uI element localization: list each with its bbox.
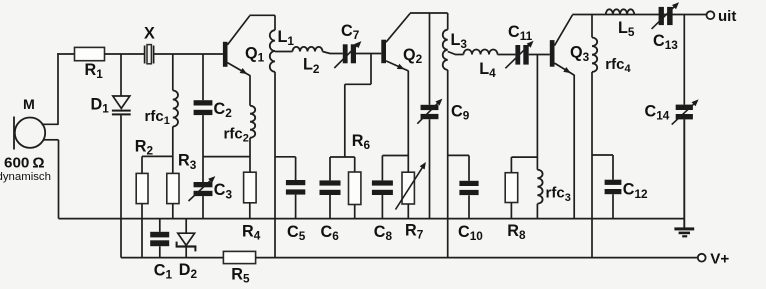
label rfc2 [224,125,249,144]
capacitor C1 [150,232,169,246]
wire R8-rfc3 jog [511,156,537,158]
label C14 [645,103,670,123]
label uit [718,8,736,25]
wire Q2 collector top [410,12,448,14]
wire Q1 emitter down [249,75,251,106]
label C13 [653,32,678,52]
inductor rfc2 [250,106,255,138]
svg-text:dynamisch: dynamisch [0,171,51,183]
resistor R8 [505,173,518,203]
wire L3 bottom to V+ rail [447,70,449,258]
wire X to Q1 base [154,53,223,55]
capacitor C13 trimmer [652,2,679,29]
wire C8 to ground rail [381,195,383,219]
wire R1 to crystal X [105,53,145,55]
crystal X [145,45,154,64]
wire D1 to V+ rail [120,115,122,257]
wire R6 top lead [354,157,356,172]
wire R8 top lead [510,157,512,173]
transistor Q2 collector [386,14,410,43]
wire C5 jog [275,156,296,158]
capacitor C9 trimmer [417,99,442,124]
wire C10 top lead [468,155,470,180]
capacitor C3 trimmer [189,176,216,201]
inductor L2 tap wire [275,51,293,53]
zener diode D2 [176,233,197,251]
diode D1 varactor [112,96,131,115]
wire C12 jog [592,154,613,156]
label R5 [231,266,250,286]
label dynamisch [0,171,51,183]
wire L2 to C7 [323,52,343,54]
inductor L2 [293,47,323,52]
transistor Q1 emitter [227,63,250,76]
wire R3 to ground rail [172,204,174,219]
wire Q3 collector top [572,14,706,16]
label M [23,97,35,113]
wire C14 top lead [683,15,685,105]
inductor L3 [443,30,448,70]
label C3 [214,181,233,201]
resistor R1 [75,47,105,60]
svg-text:X: X [144,24,155,42]
zener diode D2 bottom lead [185,247,187,257]
wire C6 to ground rail [329,195,331,219]
transistor Q2 emitter [386,61,408,71]
inductor rfc1 top wire [172,54,174,91]
wire R6 to ground rail [354,205,356,219]
inductor rfc4 top [591,15,593,38]
label C12 [623,181,648,201]
capacitor C1 top lead [159,219,161,232]
resistor R4 [244,172,257,203]
label C8 [374,223,393,243]
wire C14 to ground [683,119,685,228]
label L4 [479,60,496,80]
wire rfc2 to R4 [249,138,251,173]
label C11 [508,23,533,43]
inductor L4 [464,50,498,55]
label R6 [352,132,371,152]
capacitor C1 bottom lead [159,246,161,257]
wire mic bottom lead [44,140,59,219]
transistor Q3 collector [555,15,573,46]
label rfc3 [546,185,571,204]
zener diode D2 top lead [185,219,187,234]
capacitor C12 [605,180,622,195]
wire node A to R1 [57,53,74,55]
capacitor C6 [320,180,341,195]
wire Q1 collector top [249,14,275,16]
inductor rfc1 [173,91,178,127]
ground symbol [674,227,694,237]
wire C8-R7 jog [382,155,408,157]
label D1 [91,96,110,116]
svg-text:uit: uit [718,8,736,25]
capacitor C10 [459,181,478,195]
capacitor C5 [286,180,305,195]
wire Q3 base tap down [536,55,538,170]
wire C6 top lead [329,157,331,180]
label Q1 [245,44,265,64]
label C1 [154,262,173,282]
capacitor C14 trimmer [672,99,699,124]
wire C8 top lead [381,156,383,181]
label C9 [451,103,470,123]
capacitor C7 trimmer [334,41,361,68]
transistor Q2 base bar [381,40,386,64]
wire C3 to ground rail [202,196,204,219]
wire L1 bottom to V+ rail [274,72,276,258]
wire V+ rail left segment [121,257,223,259]
svg-text:M: M [23,97,35,113]
wire mic top lead [42,53,59,125]
label X [144,24,155,42]
terminal uit [707,11,715,19]
transistor Q1 collector [227,16,249,45]
wire rfc1 to R3 [172,127,174,174]
wire C9 top lead [429,13,431,105]
resistor R7 variable [396,162,426,210]
wire C9 to ground rail [429,119,431,218]
resistor R5 [223,251,255,263]
wire R2 jog [142,156,173,173]
label D2 [179,261,198,281]
transistor Q1 base bar [223,42,228,67]
wire rfc4 to V+ rail [591,72,593,258]
wire Q3 emitter to ground rail [573,75,575,219]
wire rfc3 to ground rail [536,204,538,219]
label rfc4 [605,56,631,75]
transistor Q3 base bar [550,40,555,67]
svg-text:V+: V+ [710,251,729,268]
label L5 [618,19,635,39]
wire C5 to ground rail [295,195,297,219]
resistor R6 [349,172,361,205]
label C2 [214,100,233,120]
wire C7 to Q2 base [356,53,381,55]
label V+ [710,251,729,268]
capacitor C2 [194,100,213,115]
label R1 [85,61,104,81]
wire R8 to ground rail [510,203,512,219]
inductor L1 top wire [274,15,276,30]
diode D1 varactor anode wire [120,54,122,96]
inductor L5 [606,9,634,14]
wire R4 to ground rail [249,203,251,219]
wire C12 to ground rail [612,194,614,218]
inductor rfc4 [592,38,597,72]
ground rail [59,218,685,220]
label 600 Ohm [4,155,45,172]
resistor R3 [167,173,179,203]
label R2 [135,138,154,158]
transistor Q3 emitter [555,63,575,75]
wire R2 to V+ rail [141,204,143,258]
label C6 [321,223,340,243]
label rfc1 [145,108,170,127]
inductor L1 [270,30,275,72]
microphone M body [14,117,45,150]
label R4 [242,222,261,242]
label C10 [458,223,483,243]
inductor rfc3 [537,170,542,204]
inductor L4 tap wire [448,52,464,55]
label L2 [303,56,320,76]
label Q3 [570,44,590,64]
label C5 [287,223,306,243]
wire C5 top lead [295,157,297,180]
label L1 [278,28,295,48]
wire C12 top lead [612,155,614,180]
label R8 [507,222,526,242]
wire Q2 emitter down [407,71,409,173]
wire C6-R6 jog [330,156,355,158]
wire L4 to C11 [498,54,516,56]
resistor R2 [136,173,148,203]
capacitor C8 [372,180,393,195]
wire R7 to ground rail [407,204,409,219]
wire C10 jog [448,154,469,156]
label Q2 [403,46,423,66]
label C7 [341,22,360,42]
terminal V+ [698,254,706,262]
wire C2-C3 node jog to rfc2 [203,156,250,158]
inductor L3 top wire [447,13,449,30]
wire X node to C2 [202,54,204,100]
svg-text:600 Ω: 600 Ω [4,155,45,172]
capacitor C11 trimmer [505,41,533,69]
label L3 [451,31,468,51]
wire Q2 base tap down [345,54,371,158]
wire C2 to C3 [202,115,204,182]
wire C11 to Q3 base [529,54,550,56]
wire V+ rail right segment [256,257,698,259]
label R7 [405,221,424,241]
wire C10 to ground rail [468,195,470,218]
label R3 [178,152,197,172]
